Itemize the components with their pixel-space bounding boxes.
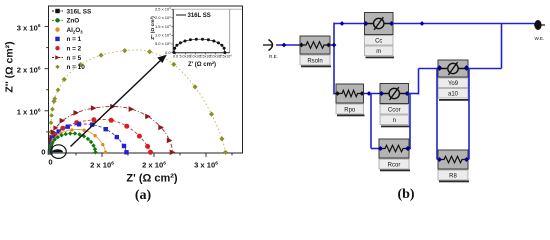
wire to Rcor left (371, 148, 381, 150)
wire Rsoln to node A (330, 44, 334, 46)
svg-text:n: n (393, 118, 396, 124)
svg-text:n = 10: n = 10 (67, 64, 86, 71)
wire Ccor right to riser (409, 93, 419, 95)
CPE Ccor (379, 84, 409, 128)
svg-text:Z'' (Ω cm²): Z'' (Ω cm²) (4, 41, 16, 92)
svg-text:n = 2: n = 2 (67, 46, 82, 53)
wire Rcor right riser (409, 94, 411, 150)
svg-text:n = 5: n = 5 (67, 55, 82, 62)
svg-text:W.E.: W.E. (535, 36, 545, 41)
svg-text:0: 0 (41, 148, 45, 157)
x tick labels (48, 158, 218, 170)
arrow annotation (71, 55, 167, 147)
axis ticks (45, 27, 233, 158)
svg-text:0.0: 0.0 (165, 50, 171, 55)
wire handle dot 2 (340, 21, 345, 26)
svg-text:0.0: 0.0 (173, 55, 178, 59)
svg-text:(b): (b) (397, 187, 414, 202)
Al2O3 orange curve (49, 128, 107, 154)
svg-text:2 x 106: 2 x 106 (17, 65, 41, 74)
svg-text:Rsoln: Rsoln (307, 59, 322, 65)
svg-text:Z' (Ω cm²): Z' (Ω cm²) (188, 61, 216, 68)
resistor Rpo (335, 84, 364, 116)
wire riser to top (501, 24, 503, 69)
CPE Yo9 (437, 60, 469, 101)
wire handle dot (420, 21, 425, 26)
svg-text:Z' (Ω cm²): Z' (Ω cm²) (126, 173, 177, 185)
svg-text:3 x 106: 3 x 106 (194, 160, 218, 169)
wire riser to Yo9 level (418, 69, 420, 95)
svg-text:316L SS: 316L SS (67, 8, 92, 15)
resistor R8 (437, 150, 469, 182)
origin highlight circle (51, 145, 66, 159)
n=5 maroon curve (48, 104, 176, 155)
terminal dot (282, 43, 287, 48)
wire Yo9 right to riser (468, 68, 502, 70)
wire Cc to W.E. (393, 23, 536, 25)
svg-text:1.0 x 104: 1.0 x 104 (155, 33, 171, 38)
svg-text:ZnO: ZnO (67, 18, 80, 25)
ZnO green curve (48, 131, 97, 154)
svg-text:Rpo: Rpo (344, 108, 356, 114)
resistor Rsoln (299, 36, 331, 67)
n=10 olive curve (48, 48, 228, 155)
svg-text:1 x 106: 1 x 106 (17, 107, 41, 116)
Rcor left dot (378, 146, 383, 151)
svg-text:Cc: Cc (375, 39, 382, 45)
316L SS tiny arc (52, 149, 63, 152)
svg-text:3 x 106: 3 x 106 (17, 23, 41, 32)
Ccor right dot (405, 91, 410, 96)
Yo9 right dot (464, 65, 469, 70)
junction node B (367, 91, 372, 96)
wire node B down to Rcor (370, 94, 372, 149)
svg-text:n = 1: n = 1 (67, 36, 82, 43)
Cc right terminal dot (389, 21, 394, 26)
svg-text:316L SS: 316L SS (188, 13, 211, 19)
inset plot (150, 6, 242, 68)
wire node A to Rpo (334, 93, 338, 95)
legend (52, 8, 92, 71)
n=1 blue curve (48, 122, 128, 154)
svg-text:Rcor: Rcor (388, 163, 401, 169)
svg-text:a10: a10 (448, 92, 459, 98)
R8 right dot (464, 157, 469, 162)
svg-text:2 x 106: 2 x 106 (90, 160, 114, 169)
y tick labels (17, 23, 46, 156)
wire Yo9 right down to R8 (468, 69, 470, 160)
plot frame (49, 6, 243, 153)
svg-text:Yo9: Yo9 (448, 81, 459, 87)
junction node A (332, 43, 337, 48)
svg-text:2 x 106: 2 x 106 (142, 160, 166, 169)
R8 left dot (437, 157, 442, 162)
svg-text:m: m (376, 49, 381, 55)
svg-text:2.0 x 104: 2.0 x 104 (155, 15, 171, 20)
svg-text:2.5 x 104: 2.5 x 104 (155, 6, 171, 11)
svg-text:(a): (a) (135, 188, 152, 203)
terminal W.E. (534, 20, 545, 41)
svg-text:5.0 x 103: 5.0 x 103 (155, 41, 171, 46)
CPE Cc (364, 13, 394, 59)
svg-text:Z'' (Ω cm²): Z'' (Ω cm²) (150, 16, 156, 40)
wire vertical node A (333, 23, 335, 95)
resistor Rcor (378, 139, 410, 171)
Yo9 left dot (437, 65, 442, 70)
svg-text:Ccor: Ccor (388, 108, 401, 114)
Cc left terminal dot (363, 21, 368, 26)
Rcor right dot (406, 146, 411, 151)
svg-text:0: 0 (48, 158, 52, 167)
svg-text:1.5 x 104: 1.5 x 104 (155, 24, 171, 29)
wire Rpo to Ccor (364, 93, 383, 95)
wire node A to Cc (334, 23, 366, 25)
svg-text:R8: R8 (449, 174, 457, 180)
svg-text:R.E.: R.E. (269, 54, 278, 59)
terminal R.E. (263, 40, 278, 60)
wire Yo9 left down to R8 (436, 69, 438, 160)
wire R.E. to Rsoln (276, 44, 301, 46)
n=2 red curve (48, 117, 153, 155)
wire to Yo9 left (419, 68, 440, 70)
Ccor left dot (379, 91, 384, 96)
